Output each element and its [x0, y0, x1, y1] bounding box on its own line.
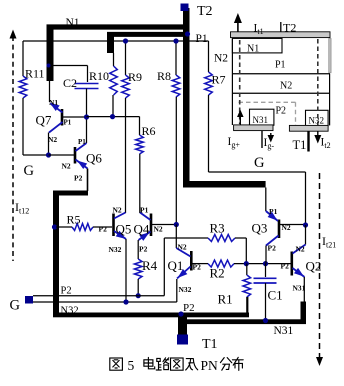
label N1 Q7 emitter — [49, 98, 58, 107]
svg-text:Q5: Q5 — [116, 222, 132, 237]
svg-text:N32: N32 — [179, 285, 192, 294]
label P2 at T1 — [183, 302, 195, 314]
label T1 terminal — [202, 337, 218, 352]
node dot P2/T1 junction — [178, 311, 183, 316]
label P2 Q1 base — [193, 263, 202, 272]
resistor R2 — [208, 260, 234, 267]
resistor R4 — [134, 259, 142, 279]
wire R1 top lead — [246, 264, 248, 275]
PN inset: It2 arrow — [314, 131, 321, 143]
label R5 — [67, 213, 81, 227]
svg-text:N1: N1 — [49, 98, 58, 107]
label N2 Q4 base — [154, 225, 163, 234]
svg-text:Q7: Q7 — [36, 113, 52, 128]
wire R1 bottom lead to P2 rail — [246, 297, 248, 313]
label C2 — [63, 76, 77, 90]
label P2 Q5 base — [99, 225, 108, 234]
label Q2 — [306, 259, 322, 274]
wire P2 thin line from G — [33, 238, 164, 296]
PN inset: gray dashed P2 boundary — [239, 102, 296, 127]
wire R2 right lead — [234, 263, 291, 265]
wire R7 bottom lead down and right to Q3 base — [209, 95, 306, 225]
node dot Q3 emitter / C1 junction — [263, 261, 268, 266]
wire Q4 emitter to R4 — [137, 240, 139, 259]
wire thick N31 bottom rail — [187, 319, 306, 324]
label N2 Q3 base — [282, 223, 291, 232]
label Q5 — [116, 222, 132, 237]
caption figure 5 — [110, 358, 123, 370]
svg-text:R3: R3 — [210, 221, 225, 236]
wire C2 top connection from N1 stub — [50, 66, 88, 83]
svg-text:R9: R9 — [128, 70, 142, 84]
svg-text:P1: P1 — [269, 207, 278, 216]
label It12 — [15, 200, 29, 216]
wire R3 right lead down to R2 node — [235, 238, 246, 264]
label P1 Q4 collector — [140, 206, 149, 215]
svg-text:N2: N2 — [280, 81, 292, 92]
label N2 Q5 collector — [113, 206, 122, 215]
resistor R11 — [19, 76, 27, 98]
PN inset: label P1 — [275, 60, 286, 71]
svg-text:C2: C2 — [63, 76, 77, 90]
wire middle node horizontal (C2,R10,R6) — [87, 116, 140, 118]
wire thick P2 bottom rail — [53, 313, 249, 318]
node dot G line junction — [46, 152, 51, 157]
svg-text:R10: R10 — [89, 69, 109, 83]
svg-text:Q2: Q2 — [306, 259, 322, 274]
svg-text:R6: R6 — [142, 124, 156, 138]
label N31 Q2 emitter — [293, 284, 306, 293]
label Q1 — [168, 258, 184, 273]
svg-text:T2: T2 — [197, 4, 213, 19]
label N32 Q1 emitter — [179, 285, 192, 294]
PN inset: right dark dashed current path — [317, 39, 319, 125]
label N32 thin line — [61, 306, 79, 317]
label R11 — [25, 67, 45, 81]
wire R4 bottom lead to P2 line — [137, 279, 139, 296]
label P2 Q2 base — [281, 262, 290, 271]
node dot R10 junction — [110, 114, 115, 119]
PN inset: N1 region box — [232, 38, 282, 53]
svg-text:R7: R7 — [212, 73, 226, 87]
label N2 Q1 collector — [178, 243, 187, 252]
resistor R3 — [208, 235, 235, 242]
label N1 net — [66, 17, 80, 29]
resistor R9 — [122, 75, 130, 98]
transistor Q5 — [114, 213, 128, 242]
wire Q2 emitter down to N31 riser — [303, 277, 305, 302]
node dot Q7 base / C2 junction — [84, 114, 89, 119]
label P1 Q3 emitter — [269, 207, 278, 216]
PN inset: bottom right gray contact — [289, 125, 328, 131]
label P2 Q3 collector — [268, 244, 277, 253]
node dot R3/R2/R1 junction — [244, 261, 249, 266]
svg-text:R11: R11 — [25, 67, 45, 81]
svg-text:N2: N2 — [48, 135, 57, 144]
PN inset: label It2 — [321, 137, 331, 151]
label R7 — [212, 73, 226, 87]
svg-text:N32: N32 — [309, 116, 325, 126]
label T2 — [197, 4, 213, 19]
svg-text:N2: N2 — [296, 245, 305, 254]
svg-text:C1: C1 — [268, 288, 283, 303]
wire Q3 collector down to R2 line — [265, 246, 267, 264]
svg-text:R5: R5 — [67, 213, 81, 227]
terminal T2 square — [181, 4, 189, 12]
label R2 — [210, 266, 225, 281]
node dot Q5 emitter on N32 line — [123, 299, 128, 304]
wire Q5 emitter down to N32 line — [125, 239, 127, 302]
label R3 — [210, 221, 225, 236]
wire Q1 collector lead — [175, 225, 177, 249]
svg-text:G: G — [254, 155, 265, 171]
PN inset: label N1 — [247, 44, 259, 55]
label C1 — [268, 288, 283, 303]
wire R2 left lead from Q1 base — [192, 263, 208, 265]
svg-text:N2: N2 — [282, 223, 291, 232]
wire thick T2 vertical + right horizontal to Q3 — [183, 8, 266, 188]
capacitor C1 — [254, 264, 277, 320]
wire Q7 emitter lead from N1 stub — [49, 81, 51, 102]
wire R5 left lead — [56, 226, 72, 228]
PN inset: bottom left gray contact — [234, 125, 273, 131]
svg-text:T2: T2 — [283, 21, 296, 35]
wire R10 stub lead — [113, 53, 115, 66]
svg-text:Q3: Q3 — [252, 221, 268, 236]
PN inset: main outline — [232, 38, 331, 125]
PN inset: It1 arrow — [234, 13, 242, 32]
svg-text:G: G — [10, 298, 21, 314]
label P1 net — [196, 33, 208, 45]
svg-text:P1: P1 — [275, 60, 286, 71]
label Q6 — [86, 151, 102, 166]
node dot R8 tap — [173, 38, 178, 43]
wire Q2 collector lead — [305, 225, 307, 245]
svg-text:N2: N2 — [178, 243, 187, 252]
capacitor C2 — [75, 84, 99, 117]
svg-text:P2: P2 — [139, 245, 148, 254]
PN inset: label G — [254, 155, 265, 171]
label G left — [24, 163, 35, 179]
svg-text:T1: T1 — [202, 337, 218, 352]
wire thick T1 stub — [178, 314, 187, 339]
transistor Q2 — [292, 245, 306, 280]
label It21 — [322, 234, 336, 250]
transistor Q6 — [49, 143, 88, 169]
resistor R8 — [172, 75, 180, 97]
PN inset: label N31 — [253, 115, 269, 125]
label R10 — [89, 69, 109, 83]
label N2 net — [214, 53, 228, 65]
PN inset: Ig- lead and arrow — [262, 131, 274, 148]
PN inset: N2/P2 boundary — [232, 92, 330, 94]
label N2 Q2 collector — [296, 245, 305, 254]
node dot Q4 base / R8 junction — [174, 222, 179, 227]
wire thick N31 riser to Q2 emitter — [301, 302, 307, 323]
terminal T1 square — [177, 335, 188, 345]
wire R3 left lead — [164, 237, 208, 239]
svg-text:N32: N32 — [61, 306, 79, 317]
terminal G square bottom left — [25, 296, 33, 304]
svg-text:P2: P2 — [99, 225, 108, 234]
svg-text:5: 5 — [128, 358, 135, 373]
svg-text:P2: P2 — [61, 286, 72, 297]
label R6 — [142, 124, 156, 138]
transistor Q4 — [139, 213, 177, 241]
svg-text:N2: N2 — [214, 53, 228, 65]
label P2 thin line — [61, 286, 72, 297]
wire R6 top lead — [139, 117, 141, 135]
node dot R9 tap — [123, 38, 128, 43]
wire R7 top lead — [208, 41, 210, 72]
svg-text:N1: N1 — [247, 44, 259, 55]
wire R6 bottom lead to Q4 collector — [139, 154, 141, 213]
svg-text:N31: N31 — [253, 115, 269, 125]
label P1 Q6 collector — [78, 138, 86, 146]
label R8 — [157, 69, 171, 83]
svg-text:Q6: Q6 — [86, 151, 102, 166]
svg-text:P2: P2 — [276, 106, 287, 117]
resistor R10 — [110, 66, 118, 95]
wire Q7 collector to G line — [48, 133, 50, 156]
PN inset: label Ig- — [264, 137, 275, 151]
node dot N1-C2 tap — [47, 64, 51, 68]
resistor R5 — [72, 224, 93, 231]
transistor Q3 — [266, 211, 306, 246]
svg-text:PN: PN — [201, 358, 219, 373]
PN inset: Ig+ small arrow — [237, 110, 244, 125]
svg-text:P1: P1 — [78, 138, 86, 146]
svg-text:P2: P2 — [268, 244, 277, 253]
wire Q6 collector lead from Q7 base node — [86, 117, 88, 143]
svg-text:R8: R8 — [157, 69, 171, 83]
svg-text:R2: R2 — [210, 266, 225, 281]
svg-text:P2: P2 — [281, 262, 290, 271]
PN inset: label T2 — [283, 21, 296, 35]
label N2 Q7 collector — [48, 135, 57, 144]
transistor Q7 — [48, 100, 87, 133]
svg-text:N2: N2 — [62, 162, 71, 171]
svg-text:P2: P2 — [193, 263, 202, 272]
node dot Q3 base junction — [303, 222, 308, 227]
PN inset: N32 box — [306, 110, 329, 126]
label N2 Q6 — [62, 162, 71, 171]
svg-text:N2: N2 — [154, 225, 163, 234]
svg-text:N1: N1 — [66, 17, 80, 29]
label G bottom left — [10, 298, 21, 314]
PN inset: label P2 — [276, 106, 287, 117]
PN inset: label N32 — [309, 116, 325, 126]
PN inset: T2 lead — [280, 22, 282, 32]
PN inset: P1/N2 boundary — [232, 73, 330, 75]
wire R11 top lead — [22, 41, 24, 76]
PN inset: label N2 — [280, 81, 292, 92]
label P2 Q6 emitter — [74, 174, 83, 183]
wire thick N1 top rail — [47, 24, 187, 81]
label Q7 — [36, 113, 52, 128]
wire R9 bottom lead to Q5 collector — [125, 98, 127, 213]
wire N2 horizontal line — [23, 40, 209, 42]
label R9 — [128, 70, 142, 84]
svg-text:P1: P1 — [64, 119, 72, 127]
PN inset: left dark dashed current path — [239, 40, 241, 124]
label Q3 — [252, 221, 268, 236]
svg-text:P1: P1 — [140, 206, 149, 215]
wire N32 thin line from G — [33, 279, 177, 302]
svg-text:N32: N32 — [109, 245, 122, 254]
PN inset: top metal contact gray bar — [231, 32, 331, 38]
svg-text:N2: N2 — [113, 206, 122, 215]
wire Q6 emitter to thick loop — [87, 169, 89, 192]
wire Q3 emitter lead from T2 wire — [265, 188, 267, 212]
svg-text:P2: P2 — [183, 302, 195, 314]
node It21 dashed current line right — [316, 173, 323, 366]
svg-text:G: G — [24, 163, 35, 179]
svg-text:Q4: Q4 — [134, 222, 150, 237]
PN inset: label T1 — [293, 138, 307, 152]
label N31 net — [274, 325, 294, 337]
label P1 Q7 base — [64, 119, 72, 127]
svg-text:T1: T1 — [293, 138, 307, 152]
node dot R5 tap on thick wire — [52, 224, 57, 229]
wire R5 right lead to Q5 base — [93, 226, 112, 228]
svg-text:R1: R1 — [218, 292, 233, 307]
wire thick P1 rail — [107, 32, 190, 53]
PN inset: T1 lead — [307, 131, 309, 151]
wire thick left loop (Q6 emitter to bottom P2) — [53, 191, 88, 313]
PN inset: label It1 — [254, 23, 264, 37]
node It12 dashed current line left — [10, 30, 17, 262]
label R4 — [142, 258, 158, 273]
transistor Q1 — [175, 248, 191, 281]
svg-text:Q1: Q1 — [168, 258, 184, 273]
svg-text:N31: N31 — [274, 325, 294, 337]
node dot R4 on P2 thin line — [136, 293, 141, 298]
label Q4 — [134, 222, 150, 237]
wire R8 top lead — [175, 41, 177, 75]
node dot C1 on N31 rail — [263, 318, 268, 323]
wire R10 bottom lead — [112, 95, 114, 117]
wire R9 top lead — [125, 41, 127, 75]
resistor R7 — [205, 72, 213, 95]
PN inset: label Ig+ — [228, 136, 241, 150]
label R1 — [218, 292, 233, 307]
node dot T2/P1 junction — [185, 31, 190, 36]
PN inset: N31 box — [250, 109, 274, 125]
resistor R1 — [243, 275, 251, 297]
label N32 Q5 emitter — [109, 245, 122, 254]
resistor R6 — [136, 135, 144, 154]
wire R8 bottom lead to Q4 base junction — [175, 97, 177, 225]
svg-text:R4: R4 — [142, 258, 158, 273]
svg-text:P2: P2 — [74, 174, 83, 183]
wire R11 bottom lead to G line — [23, 98, 49, 155]
svg-text:P1: P1 — [196, 33, 208, 45]
label P2 Q4 emitter — [139, 245, 148, 254]
